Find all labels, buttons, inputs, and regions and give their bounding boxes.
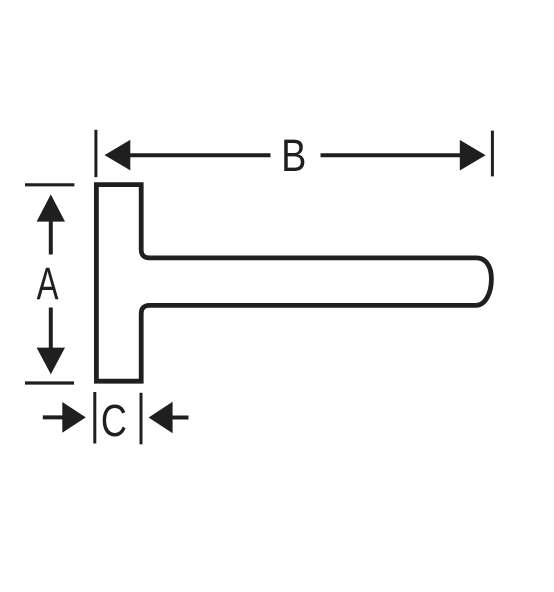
dimension A down arrowhead [37, 348, 65, 375]
dimension B left shaft [129, 153, 271, 157]
dimension B right shaft [321, 153, 462, 157]
dimension B right arrowhead [460, 140, 486, 171]
dimension B right extension tick [491, 131, 494, 177]
dimension A up arrowhead [37, 194, 65, 221]
dimension C right extension tick [140, 393, 143, 445]
dimension A bottom extension tick [25, 381, 74, 384]
dimension C right arrowhead [149, 402, 173, 433]
dimension A top extension tick [25, 183, 74, 186]
dimension C right shaft [172, 416, 189, 420]
svg-text:A: A [37, 259, 60, 309]
dimension C left shaft [43, 415, 64, 419]
svg-text:C: C [101, 395, 127, 446]
dimension C left extension tick [93, 392, 96, 444]
dimension B left extension tick [94, 130, 97, 177]
dimension A upper shaft [49, 221, 53, 255]
dimension A lower shaft [49, 308, 53, 350]
dimension B left arrowhead [105, 140, 131, 171]
dimension C left arrowhead [62, 402, 86, 433]
T-shape part outline [96, 185, 491, 382]
svg-text:B: B [281, 130, 306, 181]
